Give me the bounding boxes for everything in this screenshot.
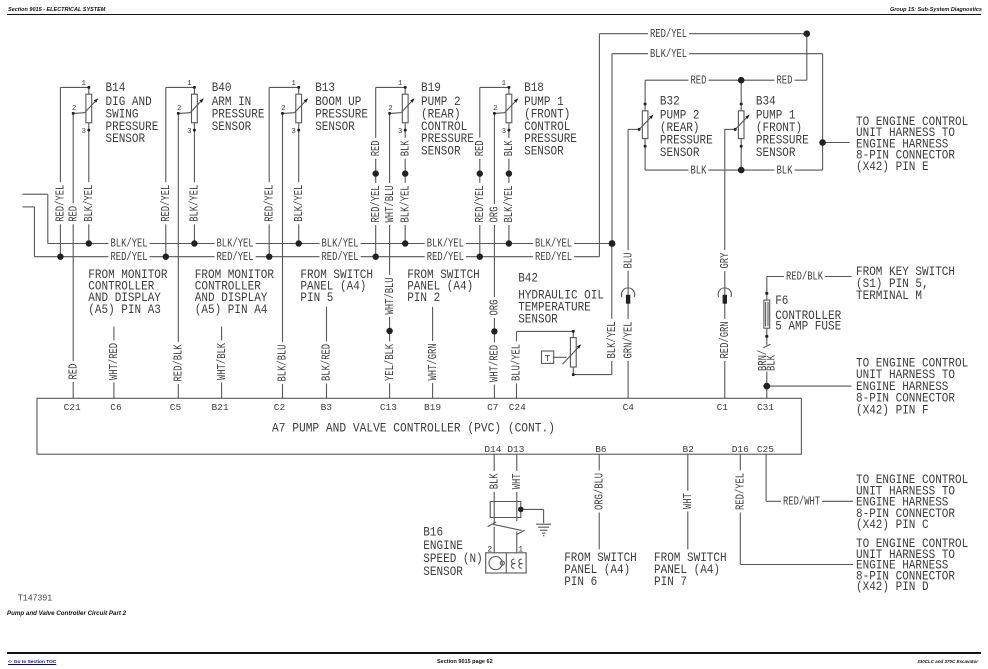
svg-text:B19: B19 bbox=[424, 402, 441, 413]
svg-text:C2: C2 bbox=[274, 402, 286, 413]
svg-text:YEL/BLK: YEL/BLK bbox=[384, 344, 397, 381]
svg-text:BLK: BLK bbox=[399, 140, 412, 156]
svg-text:T147391: T147391 bbox=[18, 593, 53, 604]
svg-text:B6: B6 bbox=[595, 444, 607, 455]
svg-text:WHT/BLU: WHT/BLU bbox=[384, 185, 397, 222]
svg-text:B42: B42 bbox=[518, 272, 538, 286]
svg-text:BLK/YEL: BLK/YEL bbox=[83, 185, 96, 222]
svg-text:(X42) PIN E: (X42) PIN E bbox=[856, 160, 929, 174]
svg-text:1: 1 bbox=[398, 80, 403, 88]
svg-text:ORG/BLU: ORG/BLU bbox=[593, 473, 606, 510]
svg-text:C25: C25 bbox=[757, 444, 774, 455]
svg-text:BLK/YEL: BLK/YEL bbox=[217, 238, 254, 251]
svg-text:(X42) PIN D: (X42) PIN D bbox=[856, 580, 929, 594]
svg-text:1: 1 bbox=[81, 80, 86, 88]
svg-text:RED/YEL: RED/YEL bbox=[55, 185, 68, 222]
svg-text:(A5) PIN A3: (A5) PIN A3 bbox=[88, 303, 161, 317]
svg-text:5 AMP FUSE: 5 AMP FUSE bbox=[775, 319, 841, 333]
svg-text:SENSOR: SENSOR bbox=[421, 145, 461, 159]
svg-text:A7 PUMP AND VALVE CONTROLLER (: A7 PUMP AND VALVE CONTROLLER (PVC) (CONT… bbox=[272, 421, 555, 435]
svg-text:TERMINAL M: TERMINAL M bbox=[856, 289, 922, 303]
svg-text:B14: B14 bbox=[106, 81, 126, 95]
svg-text:BLK/YEL: BLK/YEL bbox=[111, 238, 148, 251]
svg-text:B34: B34 bbox=[756, 95, 776, 109]
svg-text:SENSOR: SENSOR bbox=[660, 146, 700, 160]
svg-text:D14: D14 bbox=[484, 444, 501, 455]
svg-text:RED: RED bbox=[67, 364, 80, 380]
svg-text:WHT/RED: WHT/RED bbox=[108, 343, 121, 380]
svg-text:WHT/RED: WHT/RED bbox=[489, 345, 502, 382]
svg-text:2: 2 bbox=[177, 105, 182, 113]
svg-text:SPEED (N): SPEED (N) bbox=[423, 552, 482, 566]
svg-text:SENSOR: SENSOR bbox=[212, 120, 252, 134]
svg-text:BLK: BLK bbox=[766, 355, 779, 371]
svg-text:RED/YEL: RED/YEL bbox=[650, 28, 687, 41]
svg-text:RED/YEL: RED/YEL bbox=[370, 185, 383, 222]
svg-text:SENSOR: SENSOR bbox=[106, 132, 146, 146]
svg-text:3: 3 bbox=[502, 128, 507, 136]
svg-text:SENSOR: SENSOR bbox=[423, 565, 463, 579]
svg-text:2: 2 bbox=[72, 105, 77, 113]
svg-text:SENSOR: SENSOR bbox=[756, 146, 796, 160]
svg-text:SENSOR: SENSOR bbox=[315, 120, 355, 134]
svg-text:BLK/YEL: BLK/YEL bbox=[503, 185, 516, 222]
svg-text:C31: C31 bbox=[757, 402, 774, 413]
svg-text:SENSOR: SENSOR bbox=[518, 312, 558, 326]
svg-text:PIN 5: PIN 5 bbox=[300, 291, 333, 305]
svg-text:B40: B40 bbox=[212, 81, 232, 95]
svg-text:RED: RED bbox=[691, 74, 707, 87]
svg-text:RED/YEL: RED/YEL bbox=[735, 473, 748, 510]
svg-text:D16: D16 bbox=[732, 444, 749, 455]
svg-text:RED/YEL: RED/YEL bbox=[535, 251, 572, 264]
svg-text:BLK/BLU: BLK/BLU bbox=[277, 344, 290, 381]
svg-text:BLK: BLK bbox=[503, 140, 516, 156]
svg-text:2: 2 bbox=[388, 105, 393, 113]
svg-text:RED/YEL: RED/YEL bbox=[217, 251, 254, 264]
svg-text:(A5) PIN A4: (A5) PIN A4 bbox=[195, 303, 268, 317]
svg-text:B2: B2 bbox=[682, 444, 694, 455]
svg-text:BLK/RED: BLK/RED bbox=[321, 344, 334, 381]
svg-text:C21: C21 bbox=[64, 402, 81, 413]
svg-text:RED: RED bbox=[474, 140, 487, 156]
svg-text:(X42) PIN F: (X42) PIN F bbox=[856, 403, 929, 417]
svg-text:C4: C4 bbox=[623, 402, 635, 413]
svg-text:B16: B16 bbox=[423, 525, 443, 539]
svg-text:WHT/BLU: WHT/BLU bbox=[384, 277, 397, 314]
svg-text:GRN/YEL: GRN/YEL bbox=[622, 321, 635, 358]
svg-text:C7: C7 bbox=[487, 402, 498, 413]
svg-text:BLK/YEL: BLK/YEL bbox=[606, 321, 619, 358]
svg-text:BLK/YEL: BLK/YEL bbox=[535, 238, 572, 251]
svg-text:1: 1 bbox=[187, 80, 192, 88]
svg-text:BLK/YEL: BLK/YEL bbox=[399, 185, 412, 222]
svg-text:WHT: WHT bbox=[682, 493, 695, 509]
svg-text:ORG: ORG bbox=[489, 207, 502, 223]
svg-text:PIN 6: PIN 6 bbox=[564, 575, 597, 589]
svg-text:1: 1 bbox=[518, 545, 523, 554]
svg-text:2: 2 bbox=[487, 545, 492, 554]
svg-text:RED/YEL: RED/YEL bbox=[322, 251, 359, 264]
svg-text:RED: RED bbox=[370, 140, 383, 156]
svg-text:B18: B18 bbox=[524, 81, 544, 95]
svg-text:2: 2 bbox=[281, 105, 286, 113]
svg-text:BLK/YEL: BLK/YEL bbox=[427, 238, 464, 251]
svg-text:(X42) PIN C: (X42) PIN C bbox=[856, 518, 929, 532]
svg-text:C1: C1 bbox=[717, 402, 729, 413]
svg-text:B21: B21 bbox=[211, 402, 228, 413]
svg-text:PIN 7: PIN 7 bbox=[654, 575, 687, 589]
svg-text:2: 2 bbox=[493, 105, 498, 113]
svg-text:ORG: ORG bbox=[489, 300, 502, 316]
svg-text:3: 3 bbox=[398, 128, 403, 136]
svg-text:F6: F6 bbox=[775, 294, 788, 308]
svg-text:RED: RED bbox=[777, 74, 793, 87]
svg-text:BLK/YEL: BLK/YEL bbox=[650, 48, 687, 61]
svg-text:BLK/YEL: BLK/YEL bbox=[293, 185, 306, 222]
svg-text:B19: B19 bbox=[421, 81, 441, 95]
svg-text:C6: C6 bbox=[110, 402, 122, 413]
svg-text:WHT/BLK: WHT/BLK bbox=[216, 343, 229, 380]
svg-text:SENSOR: SENSOR bbox=[524, 145, 564, 159]
svg-text:C24: C24 bbox=[509, 402, 526, 413]
svg-text:RED/YEL: RED/YEL bbox=[111, 251, 148, 264]
svg-text:1: 1 bbox=[291, 80, 296, 88]
svg-text:RED/YEL: RED/YEL bbox=[474, 185, 487, 222]
svg-text:RED: RED bbox=[67, 206, 80, 222]
svg-text:RED/BLK: RED/BLK bbox=[173, 344, 186, 381]
svg-text:WHT: WHT bbox=[511, 473, 524, 489]
svg-text:WHT/GRN: WHT/GRN bbox=[427, 343, 440, 380]
svg-text:GRY: GRY bbox=[719, 253, 732, 269]
svg-text:BLK: BLK bbox=[488, 473, 501, 489]
svg-text:3: 3 bbox=[81, 128, 86, 136]
svg-text:BLK/YEL: BLK/YEL bbox=[322, 238, 359, 251]
svg-text:C5: C5 bbox=[170, 402, 182, 413]
svg-text:D13: D13 bbox=[507, 444, 524, 455]
svg-text:BLK: BLK bbox=[691, 164, 707, 177]
svg-text:B32: B32 bbox=[660, 95, 680, 109]
svg-text:3: 3 bbox=[187, 128, 192, 136]
svg-text:1: 1 bbox=[502, 80, 507, 88]
svg-text:RED/YEL: RED/YEL bbox=[427, 251, 464, 264]
svg-text:RED/YEL: RED/YEL bbox=[263, 185, 276, 222]
svg-text:RED/YEL: RED/YEL bbox=[160, 185, 173, 222]
svg-text:ENGINE: ENGINE bbox=[423, 539, 463, 553]
svg-text:C13: C13 bbox=[380, 402, 397, 413]
svg-text:BLK/YEL: BLK/YEL bbox=[189, 185, 202, 222]
svg-text:PIN 2: PIN 2 bbox=[407, 291, 440, 305]
svg-text:BLK: BLK bbox=[777, 164, 793, 177]
svg-text:B13: B13 bbox=[315, 81, 335, 95]
svg-text:B3: B3 bbox=[321, 402, 333, 413]
svg-text:RED/WHT: RED/WHT bbox=[783, 496, 820, 509]
svg-text:BLU/YEL: BLU/YEL bbox=[511, 344, 524, 381]
svg-text:RED/BLK: RED/BLK bbox=[786, 271, 823, 284]
svg-text:T: T bbox=[545, 353, 551, 364]
svg-text:BLU: BLU bbox=[622, 253, 635, 269]
svg-text:RED/GRN: RED/GRN bbox=[719, 321, 732, 358]
svg-text:3: 3 bbox=[291, 128, 296, 136]
